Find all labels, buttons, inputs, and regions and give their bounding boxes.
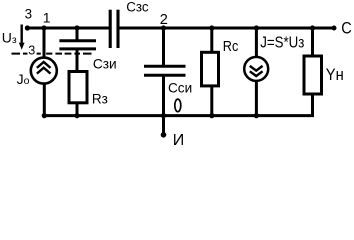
wire top rail to Сзи: [76, 28, 79, 40]
svg-text:Сзс: Сзс: [126, 0, 149, 15]
svg-text:J=S*Uз: J=S*Uз: [260, 34, 304, 51]
svg-text:З: З: [28, 42, 35, 57]
junction dot top at Yн branch: [310, 25, 315, 30]
node 3 (junction dot): [25, 25, 30, 30]
svg-text:И: И: [173, 132, 185, 148]
junction dot bottom at J branch: [254, 113, 259, 118]
svg-text:Rс: Rс: [223, 39, 239, 55]
node 1 (junction dot): [41, 25, 46, 30]
svg-text:С: С: [341, 19, 352, 37]
svg-text:2: 2: [160, 12, 168, 28]
resistor Rз: [69, 72, 87, 103]
junction dot top at J branch: [254, 25, 259, 30]
voltage arrow Uз: [19, 25, 25, 50]
terminal dot С: [332, 26, 337, 31]
junction dot bottom at Rc branch: [209, 113, 214, 118]
terminal dot И: [161, 132, 167, 138]
wire top rail to controlled source J: [255, 28, 258, 58]
wire node 1 to Jо source: [43, 28, 46, 58]
wire Сси to bottom rail: [162, 75, 165, 115]
wire top rail to Yн: [311, 28, 314, 55]
wire stub to terminal И: [162, 116, 165, 134]
wire node 2 to Сси: [162, 28, 165, 66]
capacitor C3 Сси (plates): [144, 66, 186, 75]
wire Сзи to Rз: [76, 49, 79, 71]
controlled current source J=S*Uз (circle with double down chevron): [244, 57, 268, 81]
capacitor C1 Сзс (plates): [110, 10, 118, 48]
junction dot bottom at Rз branch: [74, 113, 79, 118]
wire Rз to bottom rail: [76, 103, 79, 116]
svg-text:Jо: Jо: [17, 71, 30, 87]
resistor Rc: [202, 52, 219, 86]
label node 0 (tall oval zero): [175, 99, 181, 112]
svg-text:Rз: Rз: [92, 91, 108, 107]
wire J source to bottom rail: [255, 81, 258, 116]
current source Jо (circle with double up chevron): [31, 58, 57, 84]
capacitor C2 Сзи (plates): [59, 41, 96, 49]
junction dot bottom left: [42, 113, 47, 118]
svg-text:Yн: Yн: [326, 66, 344, 84]
wire Rc to bottom rail: [210, 86, 213, 116]
svg-text:Сзи: Сзи: [93, 57, 117, 72]
wire Jо source to bottom rail: [43, 83, 46, 115]
wire top rail right segment (Сзс to terminal С): [118, 27, 335, 30]
dashed boundary line (gate): [12, 53, 92, 55]
junction dot top at Rc branch: [209, 25, 214, 30]
svg-text:Сси: Сси: [168, 79, 192, 95]
junction dot top at Сзи branch: [74, 25, 79, 30]
svg-text:1: 1: [43, 9, 51, 25]
load admittance Yн (rectangle): [304, 56, 322, 94]
wire bottom rail: [44, 96, 312, 116]
wire top rail to Rc: [210, 28, 213, 53]
wire top rail left segment (node 3 to Сзс): [25, 27, 111, 30]
junction dot bottom at node 0 branch: [161, 113, 166, 118]
svg-text:Uз: Uз: [2, 30, 17, 47]
svg-text:3: 3: [25, 6, 32, 21]
node 2 (junction dot): [161, 25, 166, 30]
